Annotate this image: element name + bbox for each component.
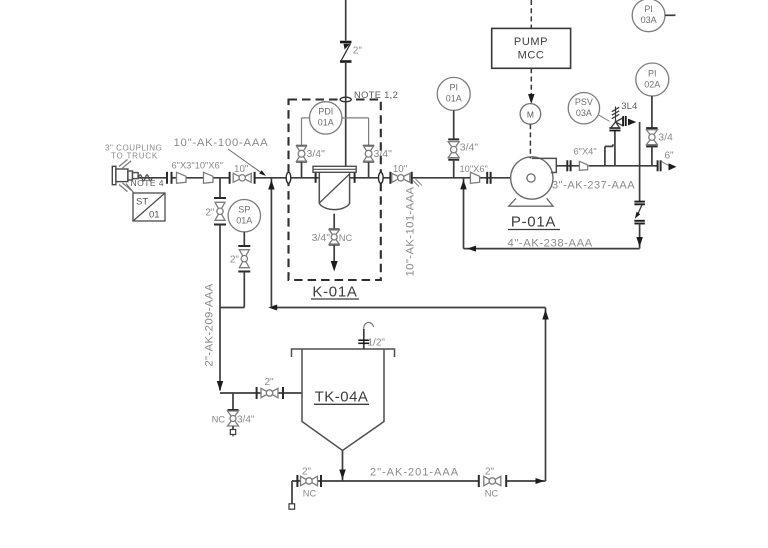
svg-text:NOTE 4: NOTE 4 [131,178,164,188]
svg-text:2": 2" [353,46,363,57]
svg-text:ST: ST [136,197,148,208]
svg-text:01A: 01A [236,216,252,226]
svg-text:03A: 03A [576,108,592,118]
svg-text:NC: NC [485,489,499,499]
svg-text:3"-AK-237-AAA: 3"-AK-237-AAA [552,180,635,192]
svg-text:3/4": 3/4" [237,414,255,425]
svg-text:6"X3"10"X6": 6"X3"10"X6" [172,160,223,170]
svg-text:NC: NC [303,489,317,499]
svg-text:01: 01 [149,210,160,221]
svg-text:PDI: PDI [318,107,333,117]
svg-text:10": 10" [234,164,249,175]
svg-text:MCC: MCC [518,50,545,62]
svg-text:SP: SP [238,205,250,215]
svg-text:01A: 01A [446,94,462,104]
svg-text:3/4": 3/4" [307,148,326,160]
svg-text:3/4": 3/4" [460,141,479,153]
svg-text:M: M [527,109,534,119]
svg-text:3L4: 3L4 [621,101,638,112]
svg-text:TO TRUCK: TO TRUCK [111,151,158,160]
svg-text:2": 2" [205,207,215,218]
svg-text:PI: PI [644,4,653,14]
svg-text:02A: 02A [644,79,660,89]
svg-text:10": 10" [393,164,408,175]
svg-text:2": 2" [485,466,495,477]
svg-text:NC: NC [212,414,226,424]
svg-text:2": 2" [230,254,240,265]
svg-text:6"X4": 6"X4" [574,146,597,156]
svg-text:K-01A: K-01A [312,283,357,300]
svg-text:PI: PI [449,83,458,93]
svg-text:PUMP: PUMP [514,36,548,48]
svg-text:10"X6": 10"X6" [460,164,488,174]
svg-text:2"-AK-201-AAA: 2"-AK-201-AAA [370,467,459,479]
svg-text:01A: 01A [318,118,334,128]
svg-text:6": 6" [665,150,675,161]
svg-text:PSV: PSV [575,97,593,107]
svg-text:NOTE 1,2: NOTE 1,2 [354,89,398,100]
svg-text:4"-AK-238-AAA: 4"-AK-238-AAA [508,237,593,249]
svg-text:3/4": 3/4" [374,148,393,160]
svg-text:1/2": 1/2" [368,337,386,348]
svg-text:TK-04A: TK-04A [315,389,369,406]
svg-text:2": 2" [302,466,312,477]
svg-text:3/4": 3/4" [312,232,331,244]
svg-text:2"-AK-209-AAA: 2"-AK-209-AAA [204,283,216,366]
svg-text:PI: PI [648,68,657,78]
svg-text:3/4: 3/4 [658,132,673,144]
svg-text:10"-AK-101-AAA: 10"-AK-101-AAA [405,186,417,276]
svg-text:P-01A: P-01A [511,214,556,231]
svg-text:2": 2" [264,377,274,388]
svg-text:03A: 03A [641,15,657,25]
svg-text:10"-AK-100-AAA: 10"-AK-100-AAA [174,137,269,149]
svg-text:NC: NC [339,233,353,243]
